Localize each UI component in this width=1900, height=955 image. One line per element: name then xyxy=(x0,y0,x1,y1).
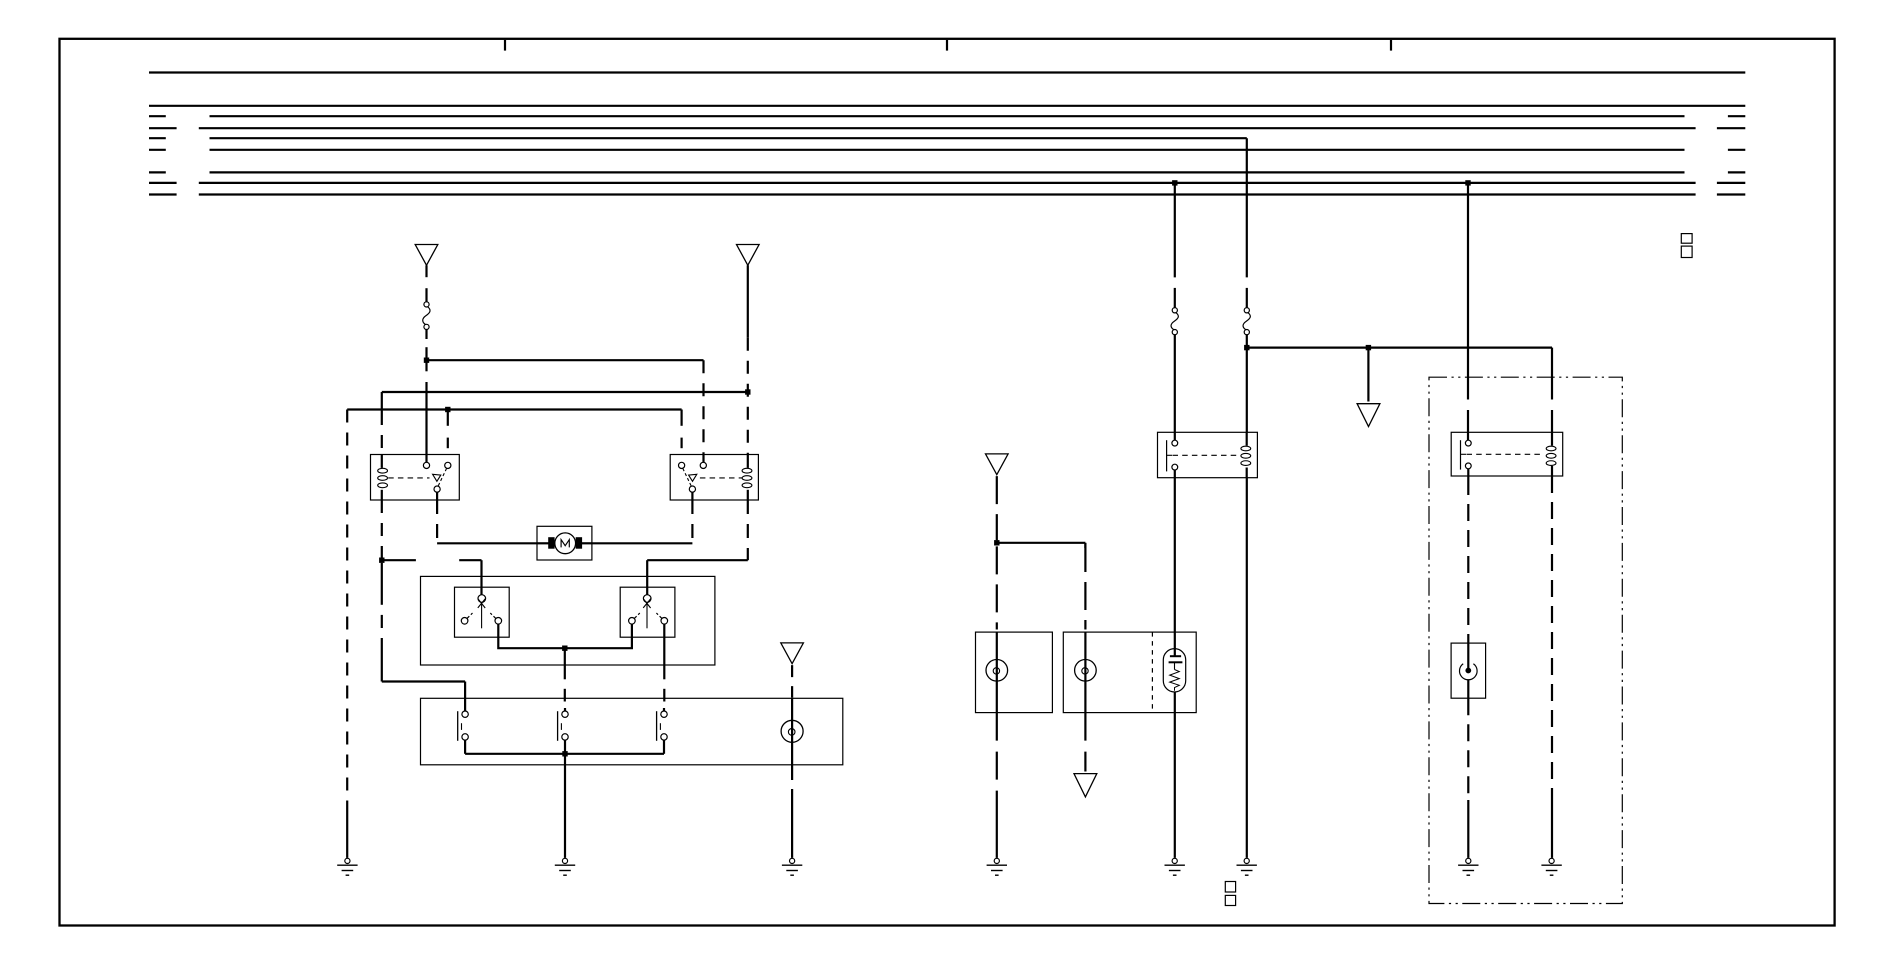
wire H2 left drop to K1 coil xyxy=(381,392,383,455)
bus wire L3 xyxy=(149,115,1745,117)
bus wire L6 xyxy=(149,149,1745,151)
bulb L2 box divider xyxy=(1151,632,1153,713)
bulb L2 xyxy=(1075,660,1097,682)
relay K1 blade xyxy=(438,468,447,487)
switch S1 contact b xyxy=(490,613,501,624)
relay K4 blade xyxy=(1461,440,1467,469)
node J junction xyxy=(1366,345,1371,350)
switch S1 box xyxy=(455,587,510,637)
relay K1 output wire xyxy=(436,492,438,500)
bulb L1 xyxy=(986,660,1008,682)
relay K4 box xyxy=(1451,432,1563,476)
bus wire L8 xyxy=(149,182,1745,184)
power connector triangle T2 xyxy=(737,245,760,266)
node E junction xyxy=(562,646,567,651)
relay K2 blade xyxy=(683,468,692,487)
bus wire L4 xyxy=(149,127,1745,129)
top border section tick 3 xyxy=(1390,40,1392,51)
relay K1 contact c1 xyxy=(423,462,429,468)
fuse F1 xyxy=(423,302,430,330)
wire node A to K2 drop xyxy=(427,359,704,361)
wire node D to switch S1 (dashed gap) xyxy=(382,560,482,595)
circuit breaker capsule xyxy=(1163,649,1185,692)
power connector triangle T1 xyxy=(415,245,438,266)
relay K1 common contact xyxy=(434,486,440,492)
ground G1 xyxy=(337,858,357,875)
wire node D down to washer switch xyxy=(382,563,465,711)
wire H3 right drop to K2 contact xyxy=(680,410,682,449)
ground G3 xyxy=(782,858,802,875)
wire T2 to node B and K2 coil xyxy=(747,265,749,454)
washer pump box xyxy=(1451,643,1486,698)
wire K3 coil to ground G6 xyxy=(1246,478,1248,858)
relay K1 box xyxy=(371,455,460,501)
ground G2 xyxy=(555,858,575,875)
ground G4 xyxy=(987,858,1007,875)
wire H3 left drop to ground G1 xyxy=(346,410,348,858)
relay K2 contact c2 xyxy=(700,462,706,468)
relay K1 actuation dashed link xyxy=(388,474,441,481)
sheet connector squares bottom xyxy=(1225,882,1235,906)
wire node C to K1 contact xyxy=(447,410,449,449)
relay K2 common contact xyxy=(689,486,695,492)
bulb L3 (illumination) xyxy=(781,720,803,742)
power connector triangle T4 xyxy=(781,643,804,664)
wire F3 to relay K3 coil xyxy=(1246,335,1248,433)
wiper switch assembly box xyxy=(421,576,715,665)
wire L2 to ground arrow xyxy=(1084,713,1086,772)
switch S2 pin xyxy=(643,595,651,603)
park switch P2 xyxy=(558,711,569,741)
ground G6 xyxy=(1237,858,1257,875)
node A junction xyxy=(424,358,429,363)
switch S2 wiper xyxy=(643,599,651,629)
node C junction xyxy=(445,407,450,412)
wire K2 coil to switch S2 xyxy=(647,500,748,595)
wire K3 contact to breaker xyxy=(1174,470,1176,656)
relay K2 coil xyxy=(742,455,752,501)
switch S2 box xyxy=(620,587,675,637)
wire H2 to coils xyxy=(382,391,748,393)
wire L3 to ground G3 xyxy=(791,765,793,858)
ground arrow A xyxy=(1357,404,1380,427)
motor M1 box xyxy=(537,526,592,560)
switch S1 contact a xyxy=(461,613,472,624)
wire F2 to relay K3 xyxy=(1174,335,1176,440)
fuse F2 xyxy=(1171,308,1178,335)
node K junction xyxy=(1465,180,1470,185)
wire L5 drop to fuse F3 xyxy=(1246,138,1248,308)
wire S1b to S2a with node E xyxy=(498,624,632,648)
node F junction xyxy=(562,751,567,756)
relay K3 actuation dashed link xyxy=(1173,454,1239,456)
top border section tick 1 xyxy=(504,40,506,51)
sheet connector squares right xyxy=(1681,234,1692,258)
node H junction xyxy=(1172,180,1177,185)
relay K1 contact c2 xyxy=(445,462,451,468)
relay K2 box xyxy=(670,455,758,501)
wire breaker to ground G5 xyxy=(1174,692,1176,858)
relay K3 box xyxy=(1158,432,1258,477)
wire L8 to fuse F2 xyxy=(1174,183,1176,308)
relay K3 contact bottom xyxy=(1172,464,1178,470)
wire node G to bulb L2 branch xyxy=(997,543,1086,548)
wire S2b to park switch xyxy=(663,624,665,711)
bus wire L1 xyxy=(149,71,1745,73)
wire K1 coil to node D xyxy=(381,500,383,558)
power connector triangle T3 xyxy=(986,454,1009,475)
top border section tick 2 xyxy=(946,40,948,51)
wire node I to relay K4 coil xyxy=(1247,348,1552,433)
wire node F to ground G2 xyxy=(564,754,566,858)
node I junction xyxy=(1244,345,1249,350)
bulb L1 box xyxy=(976,632,1053,713)
wire node E to park switch xyxy=(564,648,566,711)
bus wire L9 xyxy=(149,193,1745,195)
motor M1 xyxy=(537,533,592,554)
bulb L2 box xyxy=(1063,632,1196,713)
wire drop to K2 contact xyxy=(702,360,704,462)
wire L1 to ground G4 xyxy=(996,713,998,858)
node B junction xyxy=(745,389,750,394)
wire K4 coil to ground G8 xyxy=(1551,476,1553,858)
wire T3 to node G xyxy=(996,476,998,540)
ground arrow B xyxy=(1074,774,1097,797)
wire pump to ground G7 xyxy=(1467,680,1469,858)
wire T1 to fuse F1 xyxy=(425,265,427,302)
relay K2 contact c1 xyxy=(679,462,685,468)
relay K3 contact top xyxy=(1172,440,1178,446)
wire K4 contact to pump xyxy=(1467,469,1469,643)
relay K4 actuation dashed link xyxy=(1467,453,1543,455)
bus wire L2 xyxy=(149,105,1745,107)
relay K3 coil xyxy=(1241,432,1251,477)
park switch P1 xyxy=(458,711,469,741)
ground G7 xyxy=(1458,858,1478,875)
bus wire L5 to fuse drop xyxy=(149,137,1247,139)
relay K1 coil xyxy=(378,455,388,501)
component dash-dot enclosure xyxy=(1429,377,1622,903)
wire K1 output to motor xyxy=(437,500,537,543)
park switch common bus xyxy=(465,740,664,754)
relay K4 coil xyxy=(1546,432,1556,476)
wire K2 output to motor xyxy=(592,500,693,543)
node G junction xyxy=(994,540,999,545)
switch S1 wiper xyxy=(478,599,486,629)
wire node J to ground arrow A xyxy=(1367,348,1369,402)
park switch P3 xyxy=(657,711,668,741)
node D junction xyxy=(379,558,384,563)
wire H3 xyxy=(347,408,681,410)
relay K4 contact bottom xyxy=(1465,463,1471,469)
wiper park switch box xyxy=(421,698,843,765)
switch S2 contact a xyxy=(629,613,640,624)
switch S2 contact b xyxy=(656,613,667,624)
ground G5 xyxy=(1165,858,1185,875)
wire T4 to bulb L3 xyxy=(791,665,793,765)
fuse F3 xyxy=(1243,308,1250,335)
relay K2 output wire xyxy=(691,492,693,500)
relay K3 blade xyxy=(1167,440,1172,471)
wire F1 to relay K1 contact xyxy=(425,330,427,463)
bus wire L7 xyxy=(149,171,1745,173)
switch S1 pin xyxy=(478,595,486,603)
relay K4 contact top xyxy=(1465,440,1471,446)
washer pump symbol xyxy=(1460,643,1478,680)
wire L8 to relay K4 xyxy=(1467,183,1469,440)
wire node G to bulb L1 xyxy=(996,546,998,712)
wire branch to bulb L2 xyxy=(1084,544,1086,713)
relay K2 actuation dashed link xyxy=(689,474,743,481)
ground G8 xyxy=(1541,858,1561,875)
